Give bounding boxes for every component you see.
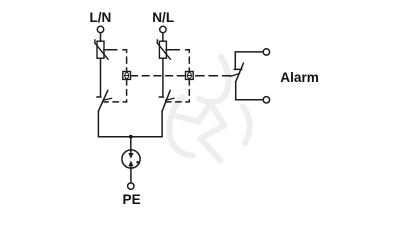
svg-text:PE: PE — [123, 192, 141, 207]
wire alarm bottom terminal — [236, 82, 264, 100]
wire alarm top terminal — [235, 52, 263, 69]
thermal disconnector theta 2 — [186, 72, 194, 80]
wire switch F2 to bus — [161, 111, 163, 137]
wire varistor RV2 to disconnect switch — [162, 58, 164, 96]
wire L/N terminal to varistor — [100, 33, 102, 41]
junction node — [129, 135, 133, 139]
PE bus wire — [98, 136, 162, 138]
wire switch F1 to bus — [97, 111, 99, 137]
thermal disconnector theta 1 — [123, 72, 131, 80]
dashed signal bus theta2 to alarm contact — [193, 75, 230, 77]
alarm contact K1 — [231, 63, 244, 82]
dashed link theta 1 to switch F1 — [104, 79, 127, 102]
label PE — [123, 192, 141, 207]
terminal alarm bottom — [263, 97, 269, 103]
svg-text:L/N: L/N — [89, 10, 111, 25]
label L/N — [89, 10, 111, 25]
disconnect switch F2 (N/L branch) — [159, 90, 174, 111]
wire spark gap to PE terminal — [130, 166, 132, 183]
watermark logo — [169, 57, 249, 161]
dashed link theta 2 to switch F2 — [167, 79, 190, 102]
dashed link varistor RV2 to thermal disconnector — [166, 50, 189, 72]
disconnect switch F1 (L/N branch) — [97, 90, 112, 111]
svg-text:Alarm: Alarm — [280, 70, 319, 85]
label N/L — [152, 10, 174, 25]
terminal L/N — [97, 26, 103, 32]
wire varistor RV1 to disconnect switch — [100, 58, 102, 96]
varistor RV1 (L/N branch) — [95, 40, 108, 60]
terminal N/L — [160, 26, 166, 32]
terminal alarm top — [263, 49, 269, 55]
label Alarm — [280, 70, 319, 85]
svg-text:N/L: N/L — [152, 10, 174, 25]
varistor RV2 (N/L branch) — [157, 40, 170, 60]
spark gap F3 (gas discharge tube) — [122, 150, 140, 168]
terminal PE — [128, 183, 134, 189]
wire junction to spark gap — [130, 137, 132, 154]
wire N/L terminal to varistor — [162, 33, 164, 41]
dashed signal bus theta1 to theta2 — [131, 75, 186, 77]
dashed link varistor RV1 to thermal disconnector — [104, 50, 127, 72]
